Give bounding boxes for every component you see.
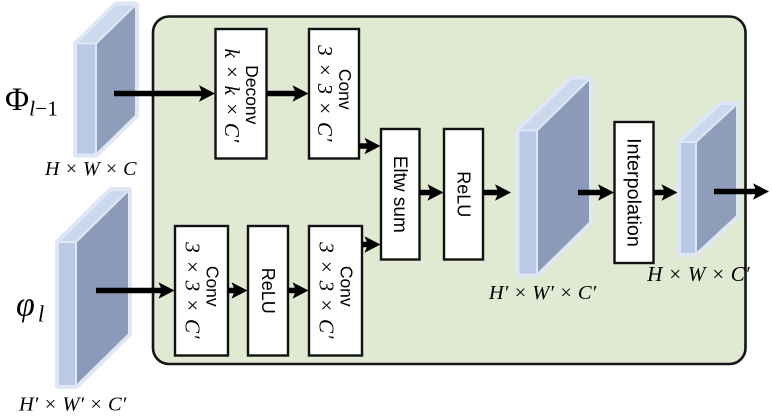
svg-text:H × W × C: H × W × C — [44, 158, 137, 180]
svg-text:Interpolation: Interpolation — [623, 138, 645, 247]
svg-text:Conv: Conv — [335, 69, 355, 110]
arrow: phi slab to Conv(bottom) — [96, 282, 175, 298]
svg-text:Eltw sum: Eltw sum — [389, 156, 410, 233]
box ReLU (top) — [444, 129, 483, 260]
feature map slab Phi_{l-1} (input, top-left) — [76, 5, 136, 155]
svg-text:H × W × C′: H × W × C′ — [646, 262, 750, 286]
svg-text:ReLU: ReLU — [258, 268, 278, 314]
arrow: Conv(bottom) to Eltw sum — [362, 236, 381, 252]
box Conv 3x3xC' (bottom row, first) — [175, 226, 228, 356]
box Conv 3x3xC' (top) — [309, 29, 359, 159]
arrow: Eltw sum to ReLU — [420, 184, 444, 200]
box Eltw sum — [381, 129, 420, 260]
svg-text:3 × 3 × C′: 3 × 3 × C′ — [315, 241, 339, 339]
box Conv 3x3xC' (bottom row, second) — [309, 226, 362, 356]
arrow: middle slab to Interpolation — [578, 184, 614, 200]
arrow: output slab to outside — [714, 183, 769, 199]
svg-text:Φl−1: Φl−1 — [5, 82, 58, 121]
svg-text:ReLU: ReLU — [454, 171, 474, 217]
svg-text:Conv: Conv — [337, 266, 357, 307]
svg-text:3 × 3 × C′: 3 × 3 × C′ — [313, 44, 337, 142]
arrow: Conv(top) to Eltw sum — [359, 138, 381, 154]
feature map slab phi_l (input, bottom-left) — [58, 190, 129, 386]
svg-text:Conv: Conv — [203, 266, 223, 307]
arrow: ReLU(bottom) to Conv2(bottom) — [288, 282, 309, 298]
svg-text:H′ × W′ × C′: H′ × W′ × C′ — [488, 282, 597, 304]
arrow: Phi slab to Deconv — [114, 85, 215, 101]
arrow: ReLU to middle slab — [483, 184, 511, 200]
box Interpolation — [615, 122, 654, 263]
svg-text:φl: φl — [16, 287, 44, 327]
module background (green rounded rect) — [153, 17, 746, 365]
box ReLU (bottom row) — [248, 226, 288, 356]
svg-text:Deconv: Deconv — [242, 65, 262, 125]
arrow: Deconv to Conv — [267, 85, 309, 101]
feature map slab H' x W' x C' (middle output) — [519, 79, 591, 275]
svg-text:H′ × W′ × C′: H′ × W′ × C′ — [18, 394, 127, 416]
feature map slab H x W x C' (final output) — [680, 104, 737, 254]
arrow: Interpolation to output slab — [654, 184, 678, 200]
svg-text:3 × 3 × C′: 3 × 3 × C′ — [181, 241, 205, 339]
box Deconv k x k x C' — [216, 29, 267, 159]
svg-text:k × k × C′: k × k × C′ — [220, 48, 244, 143]
arrow: Conv(bottom) to ReLU(bottom) — [228, 282, 248, 298]
